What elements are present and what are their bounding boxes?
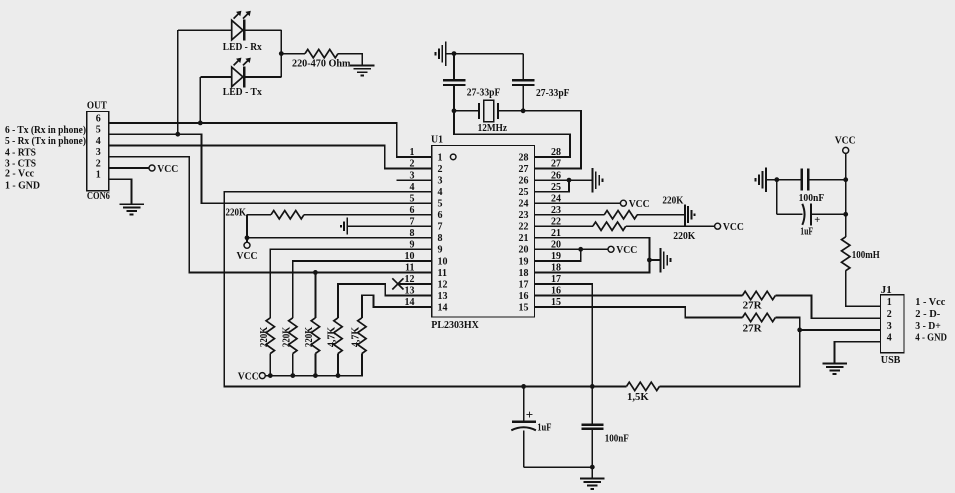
resistor R4 4,7K — [334, 318, 342, 354]
capacitor C2 27-33pF — [512, 79, 534, 81]
svg-text:13: 13 — [438, 291, 448, 302]
svg-text:4: 4 — [887, 333, 892, 344]
power VCC terminal at pin24 — [620, 200, 626, 206]
wire 220K left end down to VCC node — [246, 215, 248, 243]
svg-text:220K: 220K — [259, 327, 270, 347]
power VCC terminal top right — [843, 147, 849, 153]
node junction LED-Tx on pin6 wire — [198, 121, 203, 126]
node junction caps left — [774, 177, 779, 182]
wire 220K pin22 to VCC — [626, 225, 714, 227]
ground below bottom capacitors — [580, 478, 605, 480]
resistor R3 220K — [311, 318, 319, 354]
wire CON6 pin3 CTS to IC pin11 — [109, 157, 432, 273]
svg-text:26: 26 — [551, 170, 561, 181]
svg-text:19: 19 — [551, 251, 561, 262]
svg-text:100nF: 100nF — [605, 432, 629, 444]
svg-text:U1: U1 — [431, 133, 443, 145]
svg-text:21: 21 — [519, 233, 529, 244]
wire IC pin12 stub — [397, 283, 432, 285]
svg-text:17: 17 — [519, 279, 529, 290]
svg-text:6: 6 — [438, 210, 443, 221]
wire IC pin17 down to bottom rail — [534, 284, 592, 387]
wire IC pin20 to VCC — [534, 248, 608, 250]
svg-text:10: 10 — [438, 256, 448, 267]
svg-text:22: 22 — [519, 222, 529, 233]
wire IC pin4 down-left to bottom rail — [224, 192, 626, 387]
svg-text:1,5K: 1,5K — [627, 391, 649, 403]
node junction D+ pullup — [797, 328, 802, 333]
pin 1 marker circle of U1 — [450, 154, 456, 160]
wire R5 top to IC pin14 — [362, 295, 432, 318]
svg-text:23: 23 — [551, 205, 561, 216]
wire bottom rail to D+ node — [660, 330, 800, 387]
node junction R2 on rail — [290, 373, 295, 378]
node junction pin19 tie on pin20 wire — [578, 247, 583, 252]
svg-text:18: 18 — [519, 268, 529, 279]
svg-text:25: 25 — [519, 187, 529, 198]
resistor R2 220K — [289, 318, 297, 354]
node junction crystal right — [521, 108, 526, 113]
svg-text:22: 22 — [551, 216, 561, 227]
svg-text:24: 24 — [551, 193, 561, 204]
svg-text:25: 25 — [551, 182, 561, 193]
resistor R9 220K at pin22 — [593, 222, 626, 230]
svg-text:4,7K: 4,7K — [327, 327, 338, 347]
ground at 21-18 loop facing right — [659, 248, 661, 273]
crystal Y1 12MHz — [454, 110, 479, 112]
wire R2 top to IC pin10 — [293, 261, 432, 318]
svg-text:14: 14 — [438, 302, 448, 313]
wire ground tie vertical at pin23 — [684, 205, 686, 227]
wire 220K left end to zigzag — [247, 214, 271, 216]
wire to C1 top — [453, 54, 455, 80]
svg-text:VCC: VCC — [237, 250, 258, 262]
svg-text:12: 12 — [438, 279, 448, 290]
svg-text:2: 2 — [887, 309, 892, 320]
svg-text:VCC: VCC — [157, 163, 178, 175]
svg-text:VCC: VCC — [616, 244, 637, 256]
wire IC pin16 to 27R — [534, 295, 742, 297]
svg-text:+: + — [526, 407, 533, 422]
svg-text:VCC: VCC — [238, 370, 259, 382]
svg-text:4: 4 — [96, 136, 101, 147]
wire to C2 top — [522, 54, 524, 80]
svg-text:3: 3 — [96, 147, 101, 158]
wire IC pin22 to 220K — [534, 225, 592, 227]
node junction R3 on rail — [313, 373, 318, 378]
capacitor C1 27-33pF — [443, 79, 465, 81]
svg-text:20: 20 — [519, 245, 529, 256]
wire C5 right to VCC line — [809, 179, 846, 181]
svg-text:100mH: 100mH — [852, 249, 880, 261]
ground at pin23 facing right — [687, 206, 689, 223]
svg-text:9: 9 — [438, 245, 443, 256]
wire IC pin15 jog down — [534, 307, 742, 318]
capacitor C5 100nF top — [801, 169, 803, 191]
svg-text:16: 16 — [551, 286, 561, 297]
resistor R-LED 220-470 Ohm — [305, 49, 338, 57]
wire IC pin24 to VCC — [534, 202, 620, 204]
svg-text:1: 1 — [887, 297, 892, 308]
svg-text:7: 7 — [438, 222, 443, 233]
svg-text:18: 18 — [551, 263, 561, 274]
svg-text:LED - Tx: LED - Tx — [223, 86, 262, 98]
svg-text:4: 4 — [438, 187, 443, 198]
ground at crystal top facing left — [445, 41, 447, 66]
connector CON6 body — [87, 111, 109, 190]
svg-text:J1: J1 — [881, 284, 892, 296]
wire ground stem bottom — [591, 467, 593, 478]
node junction R3 top on CTS wire — [313, 270, 318, 275]
wire IC pin7 to ground — [347, 225, 432, 227]
svg-text:CON6: CON6 — [87, 190, 110, 202]
capacitor C3 1uF bottom — [523, 386, 525, 420]
no-connect X at IC pin12 — [392, 278, 403, 289]
svg-text:7: 7 — [410, 216, 415, 227]
svg-text:220-470 Ohm: 220-470 Ohm — [292, 57, 351, 69]
svg-text:+: + — [814, 215, 820, 226]
svg-text:26: 26 — [519, 176, 529, 187]
node junction ground tap on 21-18 loop — [647, 258, 652, 263]
node junction 100nF right — [843, 177, 848, 182]
wire CON6 pin5 Rx to IC pin5 — [109, 134, 432, 203]
LED D2 LED-Tx — [232, 67, 243, 87]
svg-text:1 - GND: 1 - GND — [5, 180, 40, 192]
node junction 1uF right — [843, 212, 848, 217]
wire 220K pin23 to ground tie — [637, 214, 685, 216]
wire C1 bottom to crystal — [453, 86, 455, 111]
wire D+ node to USB pin3 — [800, 329, 881, 331]
svg-text:6: 6 — [410, 205, 415, 216]
node junction 1uF on bottom rail — [521, 384, 526, 389]
svg-text:11: 11 — [438, 268, 447, 279]
svg-text:4,7K: 4,7K — [351, 327, 362, 347]
svg-text:27R: 27R — [743, 300, 763, 312]
resistor R10 27R — [742, 291, 775, 299]
svg-text:OUT: OUT — [87, 99, 108, 111]
wire LED-Rx anode — [178, 29, 232, 31]
resistor R11 27R — [742, 313, 775, 321]
svg-text:15: 15 — [519, 302, 529, 313]
svg-text:14: 14 — [405, 297, 415, 308]
svg-text:1uF: 1uF — [800, 225, 813, 237]
node junction R4 on rail — [336, 373, 341, 378]
svg-text:6: 6 — [96, 113, 101, 124]
svg-text:28: 28 — [551, 147, 561, 158]
node junction LED-Rx on pin5 wire — [175, 132, 180, 137]
ground top right facing left — [765, 167, 767, 192]
svg-text:27-33pF: 27-33pF — [467, 87, 501, 99]
svg-text:2 - Vcc: 2 - Vcc — [5, 168, 34, 180]
wire inductor to USB pin1 — [846, 271, 881, 307]
wire CON6 pin1 to ground — [109, 179, 132, 203]
wire VCC down to inductor — [845, 154, 847, 237]
svg-text:3 - D+: 3 - D+ — [915, 320, 941, 332]
wire IC pin23 to 220K — [534, 214, 604, 216]
svg-text:12: 12 — [405, 274, 415, 285]
svg-text:27-33pF: 27-33pF — [536, 87, 570, 99]
node junction R1 on rail — [268, 373, 273, 378]
wire 27R to USB pin2 D- — [775, 296, 880, 319]
wire IC pin6 to 220K — [304, 214, 432, 216]
power VCC terminal below pin8 node — [244, 242, 250, 248]
wire resistor bank rail — [265, 354, 362, 376]
wire LED-Tx drop to pin6 wire — [199, 77, 201, 123]
resistor R6 220K at IC pin6 — [271, 211, 304, 219]
wire LED-Rx cathode — [244, 29, 281, 31]
svg-text:15: 15 — [551, 297, 561, 308]
inductor L1 100mH — [842, 237, 850, 271]
resistor R1 220K — [266, 318, 274, 354]
svg-text:2: 2 — [410, 159, 415, 170]
svg-text:12MHz: 12MHz — [478, 122, 507, 134]
wire crystal right to IC pin27 — [523, 111, 581, 169]
svg-text:LED - Rx: LED - Rx — [223, 41, 262, 53]
svg-text:8: 8 — [410, 228, 415, 239]
svg-text:20: 20 — [551, 240, 561, 251]
connector J1 body — [880, 295, 904, 353]
svg-text:USB: USB — [881, 354, 901, 366]
wire C3 bottom to ground node — [524, 466, 593, 468]
svg-text:1 - Vcc: 1 - Vcc — [915, 296, 945, 308]
power VCC terminal of resistor bank rail — [259, 373, 265, 379]
power VCC terminal at CON6 pin2 — [149, 165, 155, 171]
LED D1 LED-Rx — [232, 20, 243, 40]
svg-text:27: 27 — [551, 159, 561, 170]
wire IC pin25 tie to pin26 — [534, 180, 569, 192]
svg-text:16: 16 — [519, 291, 529, 302]
wire USB pin4 to ground — [835, 342, 881, 363]
wire ground to caps left node — [766, 179, 801, 181]
wire CON6 pin2 to VCC — [109, 167, 149, 169]
svg-text:5 - Rx (Tx in phone): 5 - Rx (Tx in phone) — [5, 135, 86, 147]
ground below CON6 pin1 — [119, 203, 144, 205]
svg-text:27: 27 — [519, 164, 529, 175]
wire IC pin3 stub — [397, 179, 432, 181]
node junction crystal ground — [452, 51, 457, 56]
svg-text:3: 3 — [887, 321, 892, 332]
svg-text:VCC: VCC — [835, 134, 856, 146]
svg-text:220K: 220K — [281, 327, 292, 347]
ground below USB — [822, 363, 847, 365]
svg-text:100nF: 100nF — [799, 192, 825, 204]
svg-text:24: 24 — [519, 199, 529, 210]
wire CON6 pin4 RTS to IC pin2 — [109, 146, 432, 169]
svg-text:220K: 220K — [673, 230, 695, 242]
wire 27R to D+ node — [775, 318, 799, 330]
svg-text:17: 17 — [551, 274, 561, 285]
svg-text:2 - D-: 2 - D- — [915, 308, 940, 320]
wire IC pin21 to pin18 loop — [534, 238, 649, 273]
wire LED-Tx anode — [200, 76, 231, 78]
wire crystal left to IC pin28 — [454, 111, 570, 157]
resistor R8 220K at pin23 — [604, 211, 637, 219]
resistor R7 1,5K — [627, 382, 660, 390]
svg-text:5: 5 — [438, 199, 443, 210]
power VCC terminal at pin20 — [608, 246, 614, 252]
wire R1 top to IC pin9 — [270, 249, 431, 317]
svg-text:5: 5 — [96, 125, 101, 136]
svg-text:11: 11 — [405, 263, 414, 274]
node junction LED cathodes to resistor — [279, 51, 284, 56]
wire IC pin26 to ground — [534, 179, 592, 181]
svg-text:3: 3 — [410, 170, 415, 181]
wire caps left node down to 1uF — [776, 180, 778, 215]
wire ground tap on loop — [649, 259, 660, 261]
wire LED resistor to ground — [338, 54, 362, 65]
svg-text:4: 4 — [410, 182, 415, 193]
svg-text:13: 13 — [405, 286, 415, 297]
svg-text:VCC: VCC — [629, 198, 650, 210]
wire IC pin19 tie to pin20 — [534, 249, 580, 261]
node junction 100nF on bottom rail — [590, 384, 595, 389]
node junction pin25 tie on pin26 wire — [567, 178, 572, 183]
svg-text:9: 9 — [410, 240, 415, 251]
wire LED cathodes join vertical — [280, 30, 282, 77]
svg-text:10: 10 — [405, 251, 415, 262]
svg-text:VCC: VCC — [723, 221, 744, 233]
svg-text:220K: 220K — [304, 327, 315, 347]
svg-text:28: 28 — [519, 152, 529, 163]
wire LED-Rx drop to pin5 wire — [177, 30, 179, 134]
ground at IC pin7 facing left — [346, 218, 348, 235]
wire LED-Tx cathode — [244, 76, 281, 78]
svg-text:5: 5 — [410, 193, 415, 204]
capacitor C6 1uF top — [777, 213, 803, 215]
svg-text:19: 19 — [519, 256, 529, 267]
svg-text:23: 23 — [519, 210, 529, 221]
svg-text:4 - GND: 4 - GND — [915, 332, 947, 344]
wire R4 top to IC pin13 — [338, 284, 432, 318]
node junction pin8 wire to VCC — [245, 235, 250, 240]
op-amp U1 PL2303HX body — [432, 146, 535, 318]
wire C2 bottom to crystal — [522, 86, 524, 111]
wire crystal top rail — [454, 53, 523, 55]
capacitor C4 100nF bottom — [591, 386, 593, 424]
svg-text:1: 1 — [96, 170, 101, 181]
svg-text:220K: 220K — [662, 195, 683, 207]
wire R3 top to CTS wire — [314, 272, 316, 317]
svg-text:21: 21 — [551, 228, 561, 239]
svg-text:27R: 27R — [743, 323, 763, 335]
wire to LED resistor — [281, 53, 305, 55]
ground at IC pin26 facing right — [591, 168, 593, 193]
svg-text:220K: 220K — [226, 206, 247, 218]
ground below LED resistor — [350, 64, 375, 66]
svg-text:1uF: 1uF — [537, 421, 551, 433]
wire crystal ground stub — [446, 53, 454, 55]
power VCC terminal at pin22 — [715, 223, 721, 229]
svg-text:2: 2 — [438, 164, 443, 175]
resistor R5 4,7K — [358, 318, 366, 354]
node junction caps to ground — [590, 465, 595, 470]
wire IC pin8 to VCC node — [247, 237, 432, 239]
svg-text:8: 8 — [438, 233, 443, 244]
svg-text:2: 2 — [96, 158, 101, 169]
svg-text:PL2303HX: PL2303HX — [431, 320, 479, 331]
node junction crystal left — [452, 108, 457, 113]
svg-text:3: 3 — [438, 176, 443, 187]
svg-text:1: 1 — [410, 147, 415, 158]
svg-text:1: 1 — [438, 152, 443, 163]
wire CON6 pin6 Tx to IC pin1 — [109, 123, 432, 157]
